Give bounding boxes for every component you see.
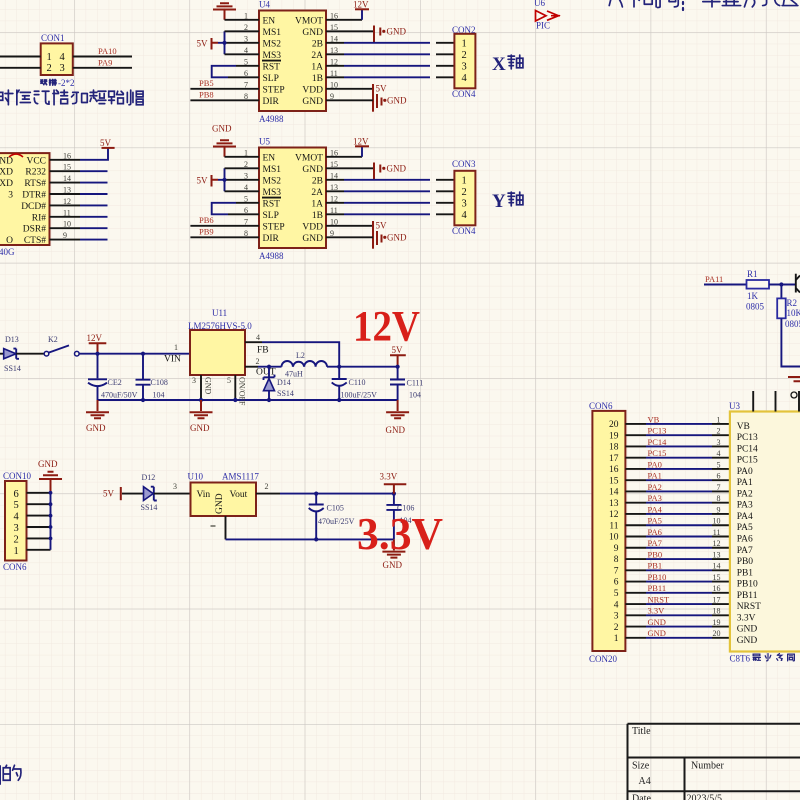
svg-text:VIN: VIN bbox=[164, 355, 181, 365]
wire R2 down bbox=[781, 318, 800, 366]
svg-text:DIR: DIR bbox=[263, 234, 280, 244]
wire PA11 to R1 bbox=[704, 284, 747, 286]
svg-text:Number: Number bbox=[691, 761, 724, 772]
svg-text:1B: 1B bbox=[312, 74, 323, 84]
wire CH340 pin10 bbox=[50, 227, 81, 229]
svg-text:3: 3 bbox=[192, 376, 196, 385]
svg-text:0805: 0805 bbox=[746, 302, 765, 312]
svg-text:2: 2 bbox=[614, 623, 619, 633]
svg-text:5V: 5V bbox=[103, 489, 115, 499]
wire U4 output 4 bbox=[326, 76, 344, 78]
svg-text:3.3V: 3.3V bbox=[648, 606, 666, 616]
svg-text:PB5: PB5 bbox=[199, 78, 214, 88]
svg-text:RI#: RI# bbox=[32, 213, 47, 223]
svg-text:Size: Size bbox=[632, 761, 650, 772]
svg-text:5: 5 bbox=[717, 460, 721, 469]
svg-text:10: 10 bbox=[713, 517, 721, 526]
svg-text:PA6: PA6 bbox=[737, 535, 753, 545]
op-amp-driver U5 A4988 bbox=[259, 148, 326, 249]
svg-text:GND: GND bbox=[204, 377, 213, 395]
svg-text:PA5: PA5 bbox=[648, 516, 662, 526]
svg-text:CON1: CON1 bbox=[41, 33, 65, 43]
svg-text:PC13: PC13 bbox=[648, 426, 667, 436]
power port 12V bbox=[355, 8, 369, 10]
wire CON1 pin4 / net PA10 bbox=[73, 56, 132, 58]
svg-text:PB11: PB11 bbox=[648, 583, 667, 593]
svg-text:GND: GND bbox=[190, 423, 210, 433]
svg-text:PB6: PB6 bbox=[199, 215, 214, 225]
svg-text:100uF/25V: 100uF/25V bbox=[341, 391, 378, 400]
svg-text:C108: C108 bbox=[151, 378, 168, 387]
svg-text:3: 3 bbox=[8, 191, 13, 201]
diode D14 SS14 bbox=[267, 365, 271, 369]
svg-text:C110: C110 bbox=[349, 378, 366, 387]
svg-text:4: 4 bbox=[614, 600, 619, 610]
svg-text:19: 19 bbox=[609, 431, 619, 441]
svg-text:4: 4 bbox=[60, 52, 66, 63]
svg-text:NRST: NRST bbox=[737, 602, 761, 612]
svg-text:LM2576HVS-5.0: LM2576HVS-5.0 bbox=[188, 321, 252, 331]
wire L2 to output node bbox=[327, 366, 398, 368]
svg-text:1: 1 bbox=[717, 415, 721, 424]
svg-text:K2: K2 bbox=[48, 335, 58, 344]
svg-text:6: 6 bbox=[717, 472, 721, 481]
svg-text:A4988: A4988 bbox=[259, 251, 284, 261]
svg-text:2B: 2B bbox=[312, 176, 323, 186]
wire CH340 pin14 bbox=[50, 182, 81, 184]
wire CON6 row 7 net PA2 bbox=[625, 490, 646, 492]
wire VCC to 5V bbox=[50, 159, 81, 161]
svg-text:GND: GND bbox=[302, 234, 323, 244]
svg-text:CON20: CON20 bbox=[589, 654, 618, 664]
svg-text:1: 1 bbox=[14, 546, 19, 557]
wire CON6 row 13 net PB0 bbox=[625, 558, 646, 560]
svg-text:GND: GND bbox=[383, 560, 403, 570]
svg-text:-2*2: -2*2 bbox=[58, 78, 75, 88]
svg-text:0805: 0805 bbox=[785, 319, 800, 329]
wire CON6 row 11 net PA6 bbox=[625, 536, 646, 538]
svg-text:GND: GND bbox=[302, 28, 323, 38]
svg-text:14: 14 bbox=[609, 488, 619, 498]
svg-text:MS3: MS3 bbox=[263, 188, 282, 198]
svg-text:C8T6: C8T6 bbox=[730, 654, 751, 664]
svg-text:9: 9 bbox=[614, 544, 619, 554]
svg-text:XD: XD bbox=[0, 179, 13, 189]
regulator U10 AMS1117 bbox=[191, 483, 257, 517]
svg-text:CON4: CON4 bbox=[452, 226, 476, 236]
svg-text:VDD: VDD bbox=[302, 222, 323, 232]
svg-text:PA0: PA0 bbox=[648, 459, 662, 469]
svg-text:3.3V: 3.3V bbox=[737, 613, 756, 623]
svg-text:17: 17 bbox=[713, 595, 721, 604]
connector CON1 bbox=[41, 43, 73, 75]
svg-text:PC14: PC14 bbox=[648, 437, 668, 447]
U11 GND + ON/OFF pins bbox=[200, 375, 202, 400]
svg-text:CON6: CON6 bbox=[3, 562, 27, 572]
svg-text:EN: EN bbox=[263, 16, 276, 26]
ground rail bbox=[98, 399, 398, 401]
svg-text:1: 1 bbox=[47, 52, 52, 63]
svg-text:PA3: PA3 bbox=[737, 501, 753, 511]
svg-text:4: 4 bbox=[462, 73, 468, 84]
svg-text:U6: U6 bbox=[534, 0, 545, 8]
svg-text:3: 3 bbox=[14, 523, 19, 534]
svg-text:14: 14 bbox=[713, 562, 721, 571]
wire CON10 pin4 bbox=[27, 515, 51, 517]
svg-text:DCD#: DCD# bbox=[21, 202, 46, 212]
svg-text:X: X bbox=[492, 54, 506, 75]
annotation 时候记得加短路帽 bbox=[0, 90, 13, 105]
svg-text:PB0: PB0 bbox=[648, 549, 663, 559]
wire 5V to MS1-MS3 bbox=[218, 31, 225, 54]
svg-text:GND: GND bbox=[386, 425, 406, 435]
svg-text:Date: Date bbox=[632, 794, 651, 800]
svg-text:Title: Title bbox=[632, 726, 651, 737]
wire 5V to MS1-MS3 bbox=[218, 168, 225, 191]
svg-text:PC15: PC15 bbox=[648, 448, 667, 458]
svg-text:12: 12 bbox=[713, 539, 721, 548]
svg-text:R1: R1 bbox=[747, 269, 758, 279]
wire pin9 GND bbox=[326, 99, 373, 101]
svg-text:3: 3 bbox=[717, 438, 721, 447]
svg-text:MS3: MS3 bbox=[263, 51, 282, 61]
svg-text:R232: R232 bbox=[25, 168, 46, 178]
wire U5 output 3 bbox=[326, 202, 344, 204]
regulator U11 LM2576HVS-5.0 bbox=[190, 330, 245, 375]
svg-text:470uF/25V: 470uF/25V bbox=[318, 517, 355, 526]
annotation top (cut off) bbox=[605, 0, 623, 7]
ground earth U11 bbox=[190, 400, 213, 418]
svg-text:16: 16 bbox=[609, 465, 619, 475]
svg-text:6: 6 bbox=[614, 578, 619, 588]
diode D13 SS14 bbox=[0, 353, 4, 355]
svg-text:16: 16 bbox=[713, 584, 721, 593]
wire pin15 GND bbox=[326, 30, 374, 32]
svg-text:11: 11 bbox=[609, 521, 618, 531]
svg-text:2: 2 bbox=[265, 482, 269, 491]
svg-text:PA4: PA4 bbox=[648, 504, 663, 514]
wire CON10 pin6 bbox=[27, 492, 51, 494]
svg-text:A4: A4 bbox=[639, 776, 651, 787]
svg-text:2: 2 bbox=[717, 427, 721, 436]
wire U11 OUT bbox=[245, 366, 258, 368]
svg-text:104: 104 bbox=[153, 391, 165, 400]
wire CH340 pin9 bbox=[50, 239, 81, 241]
svg-text:SS14: SS14 bbox=[4, 364, 21, 373]
svg-text:PA3: PA3 bbox=[648, 493, 662, 503]
wire CH340 pin11 bbox=[50, 216, 81, 218]
label 双排-2*2 bbox=[41, 80, 47, 85]
svg-text:C105: C105 bbox=[327, 504, 344, 513]
wire CON6 row 6 net PA1 bbox=[625, 479, 646, 481]
svg-text:SLP: SLP bbox=[263, 211, 279, 221]
wire CON6 row 12 net PA7 bbox=[625, 547, 646, 549]
wire DIR bbox=[190, 236, 259, 238]
svg-text:5V: 5V bbox=[197, 39, 209, 49]
svg-text:U3: U3 bbox=[729, 401, 740, 411]
svg-text:PA2: PA2 bbox=[648, 482, 662, 492]
svg-text:10K: 10K bbox=[787, 308, 800, 318]
svg-text:EN: EN bbox=[263, 153, 276, 163]
wire U5 output 1 bbox=[326, 179, 344, 181]
svg-text:8: 8 bbox=[614, 555, 619, 565]
svg-text:18: 18 bbox=[609, 443, 619, 453]
svg-text:VMOT: VMOT bbox=[295, 16, 323, 26]
ground bar GND pin15 bbox=[374, 163, 385, 181]
svg-text:5V: 5V bbox=[376, 83, 388, 93]
svg-text:1A: 1A bbox=[311, 199, 323, 209]
svg-text:2023/5/5: 2023/5/5 bbox=[687, 794, 723, 800]
wire CH340 pin13 bbox=[50, 193, 81, 195]
svg-text:2: 2 bbox=[462, 187, 467, 198]
svg-text:6: 6 bbox=[14, 489, 19, 500]
svg-text:12V: 12V bbox=[353, 0, 369, 10]
svg-text:OUT: OUT bbox=[256, 368, 276, 378]
svg-text:ON/OFF: ON/OFF bbox=[238, 377, 247, 406]
ground earth CE2 bbox=[86, 400, 109, 418]
wire VMOT to 12V bbox=[326, 156, 362, 158]
svg-text:PIC: PIC bbox=[536, 21, 550, 31]
wire CON1 pin1 left bbox=[0, 56, 41, 58]
svg-text:10: 10 bbox=[609, 533, 619, 543]
wire CON6 row 1 net VB bbox=[625, 423, 646, 425]
svg-text:RST: RST bbox=[263, 199, 281, 209]
op-amp-driver U4 A4988 bbox=[259, 11, 326, 112]
wire R1 to Q base bbox=[769, 284, 795, 286]
svg-text:4: 4 bbox=[14, 512, 20, 523]
svg-text:PB10: PB10 bbox=[737, 580, 758, 590]
svg-text:104: 104 bbox=[409, 391, 421, 400]
svg-text:PA6: PA6 bbox=[648, 527, 662, 537]
svg-text:GND: GND bbox=[387, 95, 407, 105]
ground earth 3.3V bbox=[382, 539, 405, 557]
svg-text:GND: GND bbox=[648, 617, 666, 627]
svg-text:1: 1 bbox=[462, 175, 467, 186]
svg-text:13: 13 bbox=[609, 499, 619, 509]
svg-text:U4: U4 bbox=[259, 0, 270, 10]
svg-text:AMS1117: AMS1117 bbox=[222, 472, 259, 482]
svg-text:PB9: PB9 bbox=[199, 226, 214, 236]
svg-text:O: O bbox=[6, 236, 13, 246]
svg-text:RST: RST bbox=[263, 62, 281, 72]
svg-text:Vout: Vout bbox=[230, 490, 248, 500]
svg-text:15: 15 bbox=[609, 476, 619, 486]
wire CON10 pin5 bbox=[27, 503, 51, 505]
ground (earth) at U4 pin1 bbox=[213, 3, 236, 20]
svg-text:NRST: NRST bbox=[648, 594, 671, 604]
svg-text:D12: D12 bbox=[142, 473, 156, 482]
svg-text:U10: U10 bbox=[188, 472, 204, 482]
power port 5V bbox=[372, 221, 374, 249]
svg-text:SLP: SLP bbox=[263, 74, 279, 84]
svg-text:4: 4 bbox=[717, 449, 721, 458]
svg-text:GND: GND bbox=[737, 625, 758, 635]
svg-text:3.3V: 3.3V bbox=[357, 509, 443, 559]
wire STEP bbox=[190, 88, 259, 90]
svg-text:XD: XD bbox=[0, 168, 13, 178]
svg-text:PB1: PB1 bbox=[648, 561, 663, 571]
svg-text:12V: 12V bbox=[353, 137, 369, 147]
svg-text:3: 3 bbox=[60, 63, 65, 74]
svg-text:3.3V: 3.3V bbox=[380, 472, 398, 482]
svg-text:PB8: PB8 bbox=[199, 89, 214, 99]
wire U10 Vout bbox=[256, 493, 280, 495]
svg-text:3: 3 bbox=[462, 198, 467, 209]
wire CON6 row 8 net PA3 bbox=[625, 502, 646, 504]
wire GND bus bbox=[50, 493, 52, 550]
wire CON6 row 2 net PC13 bbox=[625, 434, 646, 436]
svg-text:MS1: MS1 bbox=[263, 165, 282, 175]
svg-text:GND: GND bbox=[387, 163, 407, 173]
wire pin1 bbox=[225, 19, 260, 21]
svg-text:CON10: CON10 bbox=[3, 471, 32, 481]
power port 12V bbox=[355, 145, 369, 147]
svg-text:11: 11 bbox=[713, 528, 721, 537]
svg-text:GND: GND bbox=[302, 97, 323, 107]
svg-text:D13: D13 bbox=[5, 335, 19, 344]
capacitor C108 104 bbox=[136, 354, 151, 400]
svg-text:15: 15 bbox=[713, 573, 721, 582]
svg-text:9: 9 bbox=[717, 505, 721, 514]
svg-text:GND: GND bbox=[38, 459, 58, 469]
svg-text:PC15: PC15 bbox=[737, 456, 758, 466]
svg-text:1K: 1K bbox=[747, 291, 759, 301]
junction bbox=[222, 41, 226, 45]
wire CH340 pin12 bbox=[50, 204, 81, 206]
wire CON6 row 14 net PB1 bbox=[625, 569, 646, 571]
svg-text:17: 17 bbox=[609, 454, 619, 464]
svg-text:GND: GND bbox=[648, 628, 666, 638]
capacitor C110 100uF/25V bbox=[332, 367, 347, 400]
svg-text:CON6: CON6 bbox=[589, 401, 613, 411]
svg-text:1A: 1A bbox=[311, 62, 323, 72]
capacitor C105 470uF/25V bbox=[309, 494, 324, 540]
wire CON6 row 20 net GND bbox=[625, 637, 646, 639]
svg-text:MS2: MS2 bbox=[263, 39, 282, 49]
svg-text:4: 4 bbox=[462, 210, 468, 221]
ground bars (cut at edge) bbox=[788, 377, 800, 381]
svg-text:PA4: PA4 bbox=[737, 512, 753, 522]
svg-text:19: 19 bbox=[713, 618, 721, 627]
wire CON1 pin3 / net PA9 bbox=[73, 67, 132, 69]
wire U5 output 4 bbox=[326, 213, 344, 215]
wire VDD to 5V bbox=[326, 88, 373, 90]
svg-text:DSR#: DSR# bbox=[23, 225, 46, 235]
ground bar GND pin9 bbox=[377, 231, 382, 245]
svg-text:2: 2 bbox=[256, 357, 260, 366]
power port 5V bbox=[372, 84, 374, 112]
resistor R1 1K 0805 bbox=[747, 280, 770, 289]
svg-text:GND: GND bbox=[212, 124, 232, 134]
svg-text:PA7: PA7 bbox=[648, 538, 662, 548]
wire CON6 row 5 net PA0 bbox=[625, 468, 646, 470]
wire CON6 row 18 net 3.3V bbox=[625, 614, 646, 616]
svg-text:GND: GND bbox=[737, 636, 758, 646]
svg-text:GND: GND bbox=[86, 423, 106, 433]
svg-text:PA11: PA11 bbox=[705, 274, 723, 284]
svg-text:PA2: PA2 bbox=[737, 489, 753, 499]
svg-text:Vin: Vin bbox=[197, 490, 211, 500]
wire D12 to U10 bbox=[154, 493, 191, 495]
ground (earth) at U5 pin1 bbox=[213, 140, 236, 157]
wire U4 output 3 bbox=[326, 65, 344, 67]
capacitor CE2 470uF/50V bbox=[88, 354, 107, 400]
svg-text:1: 1 bbox=[174, 343, 178, 352]
svg-text:PB11: PB11 bbox=[737, 591, 758, 601]
svg-text:3: 3 bbox=[173, 482, 177, 491]
svg-text:MS2: MS2 bbox=[263, 176, 282, 186]
wire CON10 pin1 bbox=[27, 549, 51, 551]
ground bar GND pin15 bbox=[374, 26, 385, 44]
title block bbox=[628, 724, 800, 800]
svg-text:2: 2 bbox=[462, 50, 467, 61]
junction bbox=[95, 352, 99, 356]
IC U? CH340G (partially cut) bbox=[0, 153, 50, 245]
svg-text:PA7: PA7 bbox=[737, 546, 753, 556]
svg-text:PA5: PA5 bbox=[737, 523, 753, 533]
svg-text:12V: 12V bbox=[353, 304, 420, 351]
svg-text:VMOT: VMOT bbox=[295, 153, 323, 163]
annotation 的 (cut) bbox=[0, 766, 1, 784]
wire CON6 row 19 net GND bbox=[625, 626, 646, 628]
svg-text:1: 1 bbox=[462, 38, 467, 49]
svg-text:PC14: PC14 bbox=[737, 444, 758, 454]
svg-text:5: 5 bbox=[227, 376, 231, 385]
svg-text:PB0: PB0 bbox=[737, 557, 754, 567]
svg-text:470uF/50V: 470uF/50V bbox=[101, 391, 138, 400]
svg-text:PA0: PA0 bbox=[737, 467, 753, 477]
svg-text:FB: FB bbox=[257, 346, 269, 356]
svg-text:5V: 5V bbox=[376, 220, 388, 230]
wire U4 output 1 bbox=[326, 42, 344, 44]
svg-text:12V: 12V bbox=[87, 333, 103, 343]
resistor R2 10K 0805 bbox=[780, 285, 782, 299]
svg-text:R2: R2 bbox=[787, 298, 798, 308]
svg-text:2A: 2A bbox=[311, 188, 323, 198]
wire VDD to 5V bbox=[326, 225, 373, 227]
capacitor C111 104 bbox=[390, 367, 405, 400]
svg-text:ND: ND bbox=[0, 156, 13, 166]
svg-text:MS1: MS1 bbox=[263, 28, 282, 38]
svg-text:5: 5 bbox=[14, 500, 19, 511]
svg-text:A4988: A4988 bbox=[259, 114, 284, 124]
svg-text:DTR#: DTR# bbox=[22, 191, 46, 201]
svg-text:STEP: STEP bbox=[263, 85, 285, 95]
wire U11 FB bbox=[245, 341, 262, 343]
svg-text:7: 7 bbox=[614, 566, 619, 576]
svg-text:20: 20 bbox=[713, 629, 721, 638]
svg-text:CTS#: CTS# bbox=[24, 236, 46, 246]
svg-text:D14: D14 bbox=[277, 378, 291, 387]
svg-text:2B: 2B bbox=[312, 39, 323, 49]
wire pin1 bbox=[225, 156, 260, 158]
svg-text:5: 5 bbox=[614, 589, 619, 599]
svg-text:U5: U5 bbox=[259, 137, 270, 147]
svg-text:13: 13 bbox=[713, 550, 721, 559]
svg-text:CH340G: CH340G bbox=[0, 247, 15, 257]
svg-text:8: 8 bbox=[717, 494, 721, 503]
svg-text:PB1: PB1 bbox=[737, 568, 754, 578]
ground earth (inverted) above CON10 bbox=[39, 472, 62, 493]
wire RST-SLP tie bbox=[212, 66, 236, 78]
wire U4 output 2 bbox=[326, 53, 344, 55]
wire CON6 row 9 net PA4 bbox=[625, 513, 646, 515]
svg-text:47uH: 47uH bbox=[285, 370, 303, 379]
ground earth output bbox=[386, 400, 409, 418]
capacitor C106 104 bbox=[386, 494, 401, 540]
svg-text:3: 3 bbox=[462, 61, 467, 72]
diode D12 SS14 bbox=[144, 487, 154, 501]
